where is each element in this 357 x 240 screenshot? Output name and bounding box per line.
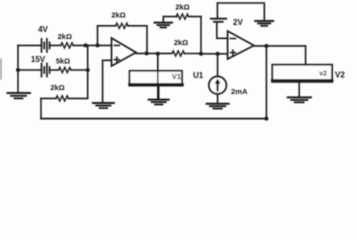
ground G4 bbox=[288, 83, 311, 103]
node dot bus tee bbox=[16, 68, 20, 72]
ground G3 bbox=[155, 23, 173, 28]
wire battery top loop bbox=[217, 3, 264, 21]
ground G5 bbox=[207, 104, 229, 109]
ground G1 bbox=[93, 103, 114, 108]
scan artifact left edge bbox=[0, 59, 2, 79]
svg-text:4V: 4V bbox=[38, 25, 48, 34]
wire node N riser bbox=[200, 17, 202, 54]
battery V-15V plates bbox=[42, 64, 50, 77]
svg-text:V1: V1 bbox=[172, 72, 181, 81]
node dot feedback join bbox=[145, 51, 149, 55]
wire feedback top left bbox=[98, 25, 116, 27]
wire node N to op-amp2 plus bbox=[201, 53, 228, 55]
wire feedback top right bbox=[128, 26, 147, 54]
node dot B feedback tap bbox=[96, 43, 100, 47]
svg-text:2kΩ: 2kΩ bbox=[111, 11, 125, 20]
wire top row left bbox=[18, 44, 42, 46]
wire top row mid bbox=[50, 44, 61, 46]
wire bottom row lead bbox=[41, 97, 56, 99]
svg-text:U1: U1 bbox=[193, 71, 204, 80]
node dot output2 bbox=[264, 44, 268, 48]
resistor 5k zigzag bbox=[59, 67, 71, 72]
wire V1 probe drop bbox=[157, 54, 159, 99]
node dot current source tap bbox=[216, 52, 220, 56]
battery 2V vertical bbox=[211, 3, 228, 38]
wire top row right to op-amp bbox=[73, 44, 111, 46]
node dot N bbox=[199, 52, 203, 56]
minus tick op-amp1 bbox=[114, 44, 119, 46]
wire bottom row right lead bbox=[68, 97, 87, 99]
wire V1 box interior pass bbox=[157, 71, 159, 84]
minus tick op-amp2 bbox=[230, 38, 235, 40]
svg-text:2kΩ: 2kΩ bbox=[174, 38, 188, 47]
resistor 2k series zigzag bbox=[172, 51, 184, 56]
svg-text:2mA: 2mA bbox=[231, 87, 248, 96]
resistor 2k shunt zigzag bbox=[176, 14, 188, 19]
battery V-4V plates bbox=[42, 39, 50, 52]
svg-text:2kΩ: 2kΩ bbox=[50, 83, 64, 92]
wire left bus vertical bbox=[17, 45, 19, 92]
wire middle row right bbox=[71, 69, 88, 71]
box V1 probe bbox=[130, 71, 183, 85]
op-amp U-A triangle bbox=[112, 38, 137, 66]
svg-text:V2: V2 bbox=[335, 71, 345, 80]
box V2 probe bbox=[272, 65, 332, 81]
node dot V1 tap bbox=[156, 52, 160, 56]
plus tick op-amp1 bbox=[114, 57, 119, 62]
svg-text:5kΩ: 5kΩ bbox=[56, 57, 70, 66]
svg-text:2V: 2V bbox=[233, 18, 243, 27]
wire op-amp1 output bbox=[136, 52, 172, 54]
wire shunt top bbox=[163, 17, 201, 23]
op-amp U-B triangle bbox=[228, 31, 254, 59]
ground G2 bbox=[149, 87, 169, 105]
wire feedback drop to bus bbox=[265, 46, 267, 119]
wire feedback riser bbox=[97, 26, 99, 46]
svg-text:v2: v2 bbox=[319, 71, 327, 78]
node dot middle junction bbox=[86, 68, 90, 72]
node dot A bbox=[84, 43, 88, 47]
wire V2 probe stub bbox=[305, 46, 307, 65]
current source U1 bbox=[209, 54, 227, 104]
wire middle row left bbox=[18, 69, 42, 71]
ground G6 bbox=[255, 21, 273, 26]
svg-text:2kΩ: 2kΩ bbox=[58, 32, 72, 41]
wire +input ground branch bbox=[103, 60, 112, 102]
wire to node N bbox=[184, 53, 201, 55]
wire vertical summing riser bbox=[87, 45, 89, 98]
resistor 2k top row zigzag bbox=[61, 43, 73, 48]
ground G-left bbox=[8, 93, 31, 98]
svg-text:15V: 15V bbox=[31, 55, 46, 64]
wire bottom row left drop bbox=[40, 98, 42, 118]
node dot bus corner bbox=[264, 117, 268, 121]
wire middle row mid bbox=[50, 69, 59, 71]
wire op-amp2 output bbox=[254, 45, 306, 47]
wire bottom bus bbox=[41, 118, 266, 120]
plus tick op-amp2 bbox=[230, 50, 235, 55]
resistor 2k feedback zigzag bbox=[116, 23, 128, 28]
resistor 2k bottom zigzag bbox=[56, 96, 68, 101]
svg-text:2kΩ: 2kΩ bbox=[175, 3, 189, 12]
